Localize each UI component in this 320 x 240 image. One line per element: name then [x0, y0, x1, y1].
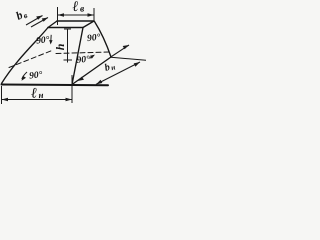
left silhouette edge A-E — [2, 28, 49, 84]
front face right edge B-F — [72, 28, 83, 85]
hidden dashed line lower-left — [9, 51, 52, 68]
svg-text:90°: 90° — [29, 69, 44, 81]
rear right slant D-G (bulged) — [95, 22, 112, 58]
svg-text:90°: 90° — [36, 34, 51, 46]
svg-text:ℓ: ℓ — [72, 0, 79, 15]
long dim arrow L2 — [96, 62, 140, 84]
arrow alpha beyond G — [112, 45, 130, 57]
dimension h — [64, 29, 73, 63]
dimension l_v — [58, 7, 95, 25]
top face front edge A-B — [48, 27, 83, 29]
dimension b_v double arrows — [26, 16, 48, 28]
label b_n rotated — [103, 60, 116, 73]
svg-text:90°: 90° — [87, 32, 102, 44]
svg-text:90°: 90° — [76, 54, 91, 66]
top face rear edge C-D — [57, 20, 94, 22]
top face right edge B-D — [83, 21, 94, 28]
svg-text:н: н — [38, 90, 44, 100]
bottom front edge E-F extended — [2, 84, 109, 87]
dimension l_n — [2, 75, 73, 104]
bottom receding edge F-G — [72, 57, 111, 85]
label b_v rotated — [14, 7, 29, 23]
dimension b_n arrows — [78, 45, 141, 84]
top face left edge A-C — [48, 21, 57, 28]
svg-text:ℓ: ℓ — [31, 85, 38, 101]
ground extension line from G — [111, 57, 146, 60]
arrowhead on edge F-G near F — [78, 77, 85, 81]
svg-text:h: h — [53, 43, 67, 50]
hidden dashed edge H-G — [56, 52, 109, 54]
